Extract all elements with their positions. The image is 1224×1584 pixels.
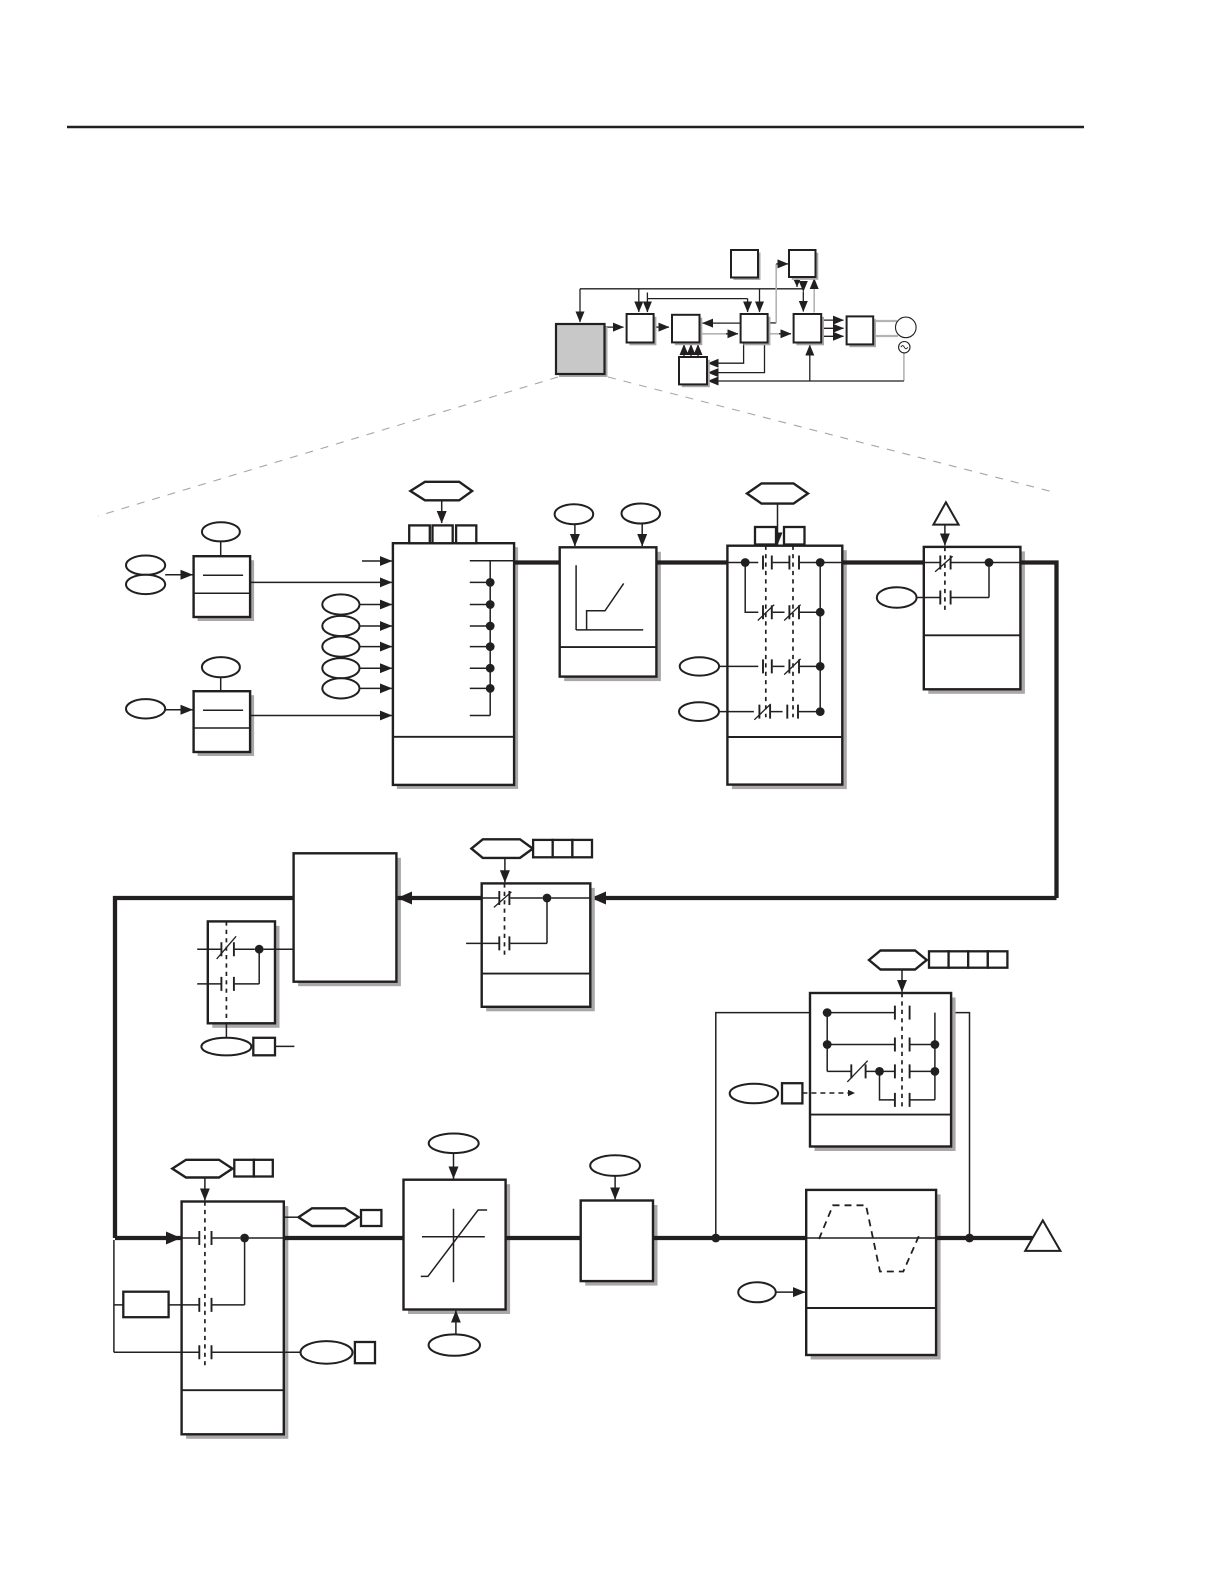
wire: feedback riser into current block bbox=[809, 345, 811, 381]
bit square status bbox=[361, 1210, 381, 1226]
ramp graph icon bbox=[576, 565, 643, 630]
wire: thick bus selector to ramp bbox=[514, 560, 560, 564]
parameter ellipse droop bbox=[201, 1038, 251, 1056]
parameter ellipse skip bbox=[738, 1282, 776, 1302]
jog row 1 wires bbox=[823, 1012, 894, 1014]
wire: speed select to speed reference bbox=[654, 326, 669, 328]
wire: drop1 into speed control bbox=[747, 299, 749, 312]
wire: gray line from speed control to top box B input bbox=[768, 322, 777, 324]
bit squares dir bbox=[234, 1160, 254, 1177]
bit squares fb bbox=[533, 840, 553, 857]
wire: drop into highlighted block bbox=[579, 289, 581, 322]
contact row1 b bbox=[789, 556, 799, 570]
wire: thick bus skip to output triangle bbox=[936, 1236, 1032, 1240]
trim row 1 wires bbox=[727, 562, 842, 564]
trim row 4 wires bbox=[719, 711, 820, 713]
jog row 4 wires bbox=[880, 1013, 935, 1100]
junction dots on output bus bbox=[711, 1234, 720, 1243]
wire: hexagon arrow bbox=[441, 500, 443, 523]
block: feedback select ladder (shadow) bbox=[482, 883, 595, 1011]
contact limit row2 bbox=[940, 591, 950, 605]
trim row 2 wires bbox=[745, 563, 820, 613]
limit row 2 wires bbox=[917, 563, 989, 598]
contact row4 a (NC) bbox=[759, 705, 770, 719]
contact jog row4 bbox=[895, 1093, 910, 1107]
parameter pointer hexagon jog bbox=[869, 951, 927, 970]
wire: into ref B bbox=[165, 709, 192, 711]
status hexagon right bbox=[299, 1208, 359, 1226]
parameter ellipse above ref B bbox=[202, 657, 240, 677]
block: speed reference bbox=[672, 315, 702, 345]
block: feedback bbox=[679, 357, 710, 387]
wire: speed control back to speed reference bbox=[703, 322, 741, 324]
dashed select line droop bbox=[225, 921, 227, 1023]
wire: ref B to selector bbox=[250, 715, 392, 717]
wire: stub input arrow bbox=[362, 560, 392, 562]
parameter ellipses trim inputs bbox=[680, 657, 719, 675]
parameter ellipse above limiter bbox=[429, 1134, 479, 1154]
wire: thick arrow into direction block bbox=[115, 1236, 181, 1240]
wire: highlighted block to speed select bbox=[605, 326, 624, 328]
wire: thick bus ramp to trim bbox=[656, 560, 727, 564]
block: direction mode ladder (shadow) bbox=[182, 1202, 289, 1439]
bit square dir out bbox=[355, 1342, 375, 1363]
limiter graph icon bbox=[422, 1209, 485, 1283]
block: accel/decel ramp (shadow) bbox=[560, 547, 661, 681]
block: speed ref A select bbox=[194, 556, 255, 621]
block: speed limit ladder (shadow) bbox=[924, 547, 1025, 694]
wire: inverter to motor bbox=[873, 320, 897, 322]
block: top box B bbox=[789, 250, 818, 280]
contact row2 b (NC) bbox=[789, 605, 799, 619]
parameter ellipse above scale bbox=[590, 1155, 640, 1176]
jog row 3 wires bbox=[827, 1070, 935, 1072]
junction dot droop bbox=[255, 945, 264, 954]
block: speed ref B select bbox=[194, 691, 255, 756]
wire: ref A to selector bbox=[250, 581, 392, 583]
header rule bbox=[67, 126, 1084, 129]
wire: hexagon arrow dir bbox=[204, 1178, 206, 1201]
output triangle connector bbox=[933, 502, 958, 524]
wire: bypass left rail bbox=[716, 1013, 823, 1238]
wire: hexagon arrow jog bbox=[901, 970, 903, 992]
parameter ellipse column bbox=[322, 594, 359, 614]
block: speed select bbox=[627, 314, 657, 345]
fb row 1 wires bbox=[482, 897, 591, 899]
bit square jog bbox=[782, 1083, 802, 1103]
block: jog select ladder (shadow) bbox=[810, 993, 956, 1151]
wire: into ref A bbox=[165, 574, 192, 576]
block: top box A bbox=[731, 250, 761, 280]
contact fb row1 (NC) bbox=[499, 891, 509, 905]
wire: thick bus scale to skip bbox=[653, 1236, 806, 1240]
contact jog row3 b bbox=[895, 1064, 910, 1078]
wire: bypass right rail bbox=[910, 1013, 969, 1238]
wire: secondary bus bbox=[647, 293, 747, 299]
contact limit row1 (NC) bbox=[940, 556, 950, 570]
wire: drop B from speed control to feedback block bbox=[708, 343, 765, 373]
contact jog row3 a (NC) bbox=[851, 1064, 865, 1078]
wire: speed feedback bbox=[708, 380, 904, 382]
junction dots trim bbox=[741, 558, 750, 567]
wire: thick bus PI out, left and down bbox=[115, 898, 294, 1238]
parameter ellipses above ramp bbox=[555, 504, 594, 524]
wire: limiter top arrow bbox=[453, 1153, 455, 1178]
dashed expansion line left bbox=[98, 377, 558, 516]
skip axis line bbox=[806, 1237, 936, 1239]
junction dot dir bbox=[240, 1234, 249, 1243]
bit squares bbox=[409, 525, 430, 543]
block: speed control bbox=[741, 314, 771, 345]
contact row4 b bbox=[787, 705, 798, 719]
dashed select line fb bbox=[504, 883, 506, 958]
skip sine dashed curve bbox=[819, 1205, 920, 1271]
wire: dashed enable arrow bbox=[802, 1092, 855, 1094]
droop row 1 wires bbox=[197, 948, 293, 950]
block: speed reference select (shadow) bbox=[397, 547, 518, 789]
droop row 2 wires bbox=[197, 949, 259, 984]
junction dot limit bbox=[985, 558, 994, 567]
encoder symbol bbox=[899, 342, 910, 353]
wire: thick bus limit to down rail bbox=[1020, 563, 1056, 899]
contact jog row2 bbox=[895, 1038, 910, 1052]
wire: speed reference to speed control bbox=[700, 333, 728, 335]
fb row 2 wires bbox=[466, 898, 547, 943]
parameter ellipse below limiter bbox=[429, 1334, 480, 1355]
junction dots jog bbox=[823, 1008, 832, 1017]
block: current control bbox=[794, 314, 824, 345]
block: limiter (shadow) bbox=[404, 1180, 511, 1314]
wire: hexagon arrow trim bbox=[777, 504, 779, 545]
selector ticks and output line bbox=[470, 561, 514, 716]
wire: feedback block up arrows bbox=[683, 345, 685, 357]
dashed select lines trim bbox=[766, 546, 793, 718]
trim right rail bbox=[819, 563, 821, 712]
wires: ramp parameter arrows bbox=[574, 524, 576, 546]
dashed expansion line right bbox=[608, 377, 1053, 492]
parameter ellipse jog bbox=[730, 1084, 778, 1104]
block: highlighted speed reference overview (gray) bbox=[556, 324, 608, 377]
wire: gray feedback up to top box B bbox=[813, 284, 815, 313]
junction dot fb bbox=[543, 894, 552, 903]
dir row 3 wires bbox=[114, 1351, 301, 1353]
contact row2 a (NC) bbox=[763, 605, 772, 619]
contact jog row1 bbox=[895, 1006, 910, 1020]
bit square droop bbox=[253, 1038, 275, 1056]
block: skip frequency (shadow) bbox=[806, 1190, 940, 1360]
contact fb row2 bbox=[499, 936, 509, 950]
wire: drop2 into speed select bbox=[646, 299, 648, 312]
parameter pointer hexagon trim bbox=[747, 483, 808, 503]
wire: drop1 into speed select bbox=[638, 289, 640, 312]
limit row 1 wires bbox=[924, 562, 1021, 564]
wire: thick bus trim to limit block bbox=[842, 560, 924, 564]
contact droop row1 (NC) bbox=[221, 942, 234, 956]
wire: bidirectional arrow bus to current block bbox=[802, 292, 804, 312]
wire: triangle arrow into limit block bbox=[944, 525, 946, 546]
jog row 2 wires bbox=[827, 1013, 935, 1072]
bit squares trim bbox=[755, 527, 776, 545]
dashed select line dir bbox=[204, 1202, 206, 1366]
contact row1 a bbox=[763, 556, 772, 570]
wire: top box B down to bus bbox=[796, 277, 798, 288]
parameter pointer hexagon dir bbox=[172, 1160, 232, 1178]
wire: limiter bottom arrow bbox=[455, 1311, 457, 1335]
contact row3 a bbox=[763, 659, 772, 673]
dashed select line limit bbox=[944, 547, 946, 610]
contact dir row1 bbox=[199, 1231, 211, 1245]
wire: encoder drop bbox=[903, 353, 905, 381]
parameter pointer hexagon fb bbox=[471, 839, 532, 858]
motor symbol bbox=[896, 317, 917, 338]
wires: ellipse column arrows bbox=[360, 604, 392, 606]
wire: thick bus limiter to scale bbox=[506, 1236, 581, 1240]
wire: main reference bus bbox=[580, 288, 803, 290]
block: speed trim ladder (shadow) bbox=[727, 546, 846, 789]
wire: drop A from speed control to feedback block bbox=[708, 343, 744, 364]
block: inverter bbox=[847, 316, 876, 347]
trim row 3 wires bbox=[719, 665, 820, 667]
contact droop row2 bbox=[221, 977, 234, 991]
wire: current block to inverter 3 phases bbox=[821, 319, 843, 321]
wire: thick bus dir to limiter bbox=[284, 1236, 404, 1240]
dir row 2 wires bbox=[169, 1238, 245, 1305]
wire: left thin rail dir bbox=[114, 1240, 123, 1352]
block: droop ladder bbox=[208, 921, 280, 1027]
block: PI regulator (shadow) bbox=[294, 853, 401, 986]
parameter ellipse limit bbox=[877, 587, 917, 608]
bit squares jog bbox=[929, 951, 949, 967]
wire: thick bus fb block to PI bbox=[398, 896, 482, 900]
wire: skip parameter arrow bbox=[776, 1291, 805, 1293]
wire: hexagon arrow fb bbox=[504, 858, 506, 882]
parameter ellipse input B bbox=[126, 699, 165, 718]
contact dir row2 bbox=[199, 1298, 211, 1312]
dir row 1 wires bbox=[182, 1237, 284, 1239]
contact row3 b (NC) bbox=[789, 659, 799, 673]
wire: drop2 into speed control bbox=[759, 289, 761, 312]
wire: scale top arrow bbox=[614, 1176, 616, 1199]
contact dir row3 bbox=[199, 1345, 211, 1359]
block: small logic rect bbox=[123, 1292, 168, 1318]
parameter ellipse dir out bbox=[301, 1341, 353, 1364]
parameter ellipse above ref A bbox=[202, 522, 240, 541]
wire: thick bus down rail into delay block bbox=[592, 896, 1057, 900]
block: scale (shadow) bbox=[581, 1201, 658, 1286]
output triangle connector bottom bbox=[1025, 1220, 1060, 1251]
wire: speed control to current block bbox=[768, 333, 780, 335]
parameter pointer hexagon bbox=[410, 482, 472, 501]
junction dots selector bbox=[486, 578, 495, 587]
dashed select line jog bbox=[901, 993, 903, 1110]
parameter ellipses input A bbox=[126, 556, 165, 575]
